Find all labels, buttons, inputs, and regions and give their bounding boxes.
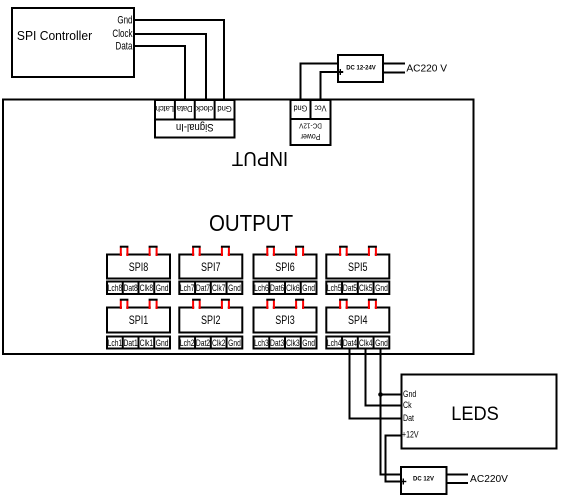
plus terminal PS2 — [400, 479, 406, 485]
svg-text:DC 12V: DC 12V — [413, 475, 435, 482]
wire PS1 minus to Power Gnd — [301, 64, 339, 101]
Power DC-12V label box — [291, 119, 331, 145]
svg-text:SPI3: SPI3 — [275, 314, 295, 328]
svg-text:Clk8: Clk8 — [140, 283, 154, 293]
wire controller Clock to Signal-In clock — [135, 34, 206, 100]
svg-text:Lch7: Lch7 — [180, 283, 195, 293]
svg-text:Lch6: Lch6 — [254, 283, 269, 293]
svg-text:Gnd: Gnd — [228, 283, 241, 293]
wire SPI4 Dat4 to LEDS Dat — [350, 349, 402, 419]
svg-text:Clk3: Clk3 — [286, 338, 300, 348]
svg-text:Signal-In: Signal-In — [176, 121, 214, 133]
svg-text:Gnd: Gnd — [375, 283, 388, 293]
Power connector pin block — [291, 100, 331, 119]
svg-text:DC 12-24V: DC 12-24V — [346, 64, 376, 71]
power supply DC 12V box — [401, 467, 447, 494]
svg-text:Clk6: Clk6 — [286, 283, 300, 293]
svg-text:Gnd: Gnd — [302, 283, 315, 293]
svg-text:Clk2: Clk2 — [212, 338, 226, 348]
svg-text:Lch3: Lch3 — [254, 338, 269, 348]
svg-text:Gnd: Gnd — [375, 338, 388, 348]
output connector SPI2 — [179, 300, 242, 349]
svg-text:AC220 V: AC220 V — [406, 63, 447, 74]
LEDS box — [402, 375, 557, 449]
wire PS1 AC line lower — [383, 72, 405, 74]
svg-text:Dat8: Dat8 — [124, 283, 139, 293]
wire branch Gnd to LEDS Gnd — [381, 394, 402, 396]
svg-text:Lch5: Lch5 — [327, 283, 342, 293]
plus terminal PS1 — [337, 69, 343, 75]
svg-text:SPI6: SPI6 — [275, 261, 295, 275]
svg-text:SPI Controller: SPI Controller — [17, 29, 92, 43]
output connector SPI3 — [254, 300, 317, 349]
svg-text:Latch: Latch — [156, 104, 174, 113]
svg-text:SPI5: SPI5 — [348, 261, 368, 275]
Signal-In label box — [155, 120, 235, 138]
svg-text:Dat1: Dat1 — [124, 338, 139, 348]
svg-text:SPI1: SPI1 — [129, 314, 149, 328]
svg-text:Power: Power — [300, 132, 320, 142]
svg-text:Data: Data — [176, 104, 192, 113]
output connector SPI7 — [179, 247, 242, 294]
svg-text:SPI4: SPI4 — [348, 314, 368, 328]
svg-text:Gnd: Gnd — [156, 283, 169, 293]
Signal-In connector pin block — [155, 100, 235, 120]
svg-text:LEDS: LEDS — [451, 402, 499, 423]
svg-text:Data: Data — [116, 40, 133, 53]
svg-text:SPI8: SPI8 — [129, 261, 149, 275]
svg-text:Dat7: Dat7 — [196, 283, 211, 293]
svg-text:DC-12V: DC-12V — [299, 121, 322, 129]
svg-text:Clk5: Clk5 — [359, 283, 373, 293]
svg-text:Lch8: Lch8 — [108, 283, 123, 293]
svg-text:Clk4: Clk4 — [359, 338, 373, 348]
svg-text:Lch2: Lch2 — [180, 338, 195, 348]
output connector SPI8 — [107, 247, 170, 294]
output connector SPI5 — [326, 247, 389, 294]
output connector SPI4 — [326, 300, 389, 349]
svg-text:Gnd: Gnd — [117, 14, 132, 27]
svg-text:Dat2: Dat2 — [196, 338, 211, 348]
junction dot on Gnd wire — [378, 392, 383, 397]
controller board main box — [3, 100, 474, 355]
wire SPI4 Clk4 to LEDS Ck — [366, 349, 402, 406]
svg-text:AC220V: AC220V — [470, 474, 508, 485]
svg-text:SPI2: SPI2 — [201, 314, 221, 328]
wire PS1 AC line upper — [383, 63, 405, 65]
svg-text:Ck: Ck — [403, 400, 412, 410]
SPI Controller box — [12, 8, 134, 77]
svg-text:Clock: Clock — [112, 28, 132, 41]
svg-text:Vcc: Vcc — [314, 104, 326, 114]
svg-text:SPI7: SPI7 — [201, 261, 221, 275]
svg-text:Clk1: Clk1 — [140, 338, 154, 348]
svg-text:Dat3: Dat3 — [270, 338, 285, 348]
wire PS2 AC line upper — [447, 474, 468, 476]
svg-text:Clk7: Clk7 — [212, 283, 226, 293]
wire PS2 AC line lower — [447, 482, 468, 484]
output connector SPI6 — [254, 247, 317, 294]
svg-text:+12V: +12V — [402, 430, 419, 440]
svg-text:Dat4: Dat4 — [343, 338, 358, 348]
svg-text:Gnd: Gnd — [294, 104, 308, 114]
svg-text:clock: clock — [195, 104, 213, 113]
svg-text:Dat5: Dat5 — [343, 283, 358, 293]
svg-text:Dat6: Dat6 — [270, 283, 285, 293]
svg-text:Lch4: Lch4 — [327, 338, 342, 348]
output connector SPI1 — [107, 300, 170, 349]
power supply DC 12-24V box — [338, 55, 383, 82]
svg-text:Gnd: Gnd — [302, 338, 315, 348]
wire controller Gnd to Signal-In Gnd — [135, 20, 224, 100]
wire PS1 plus to Power Vcc — [321, 72, 344, 100]
wire LEDS +12V to DC12V plus — [386, 436, 402, 482]
svg-text:INPUT: INPUT — [232, 147, 288, 170]
wire SPI4 Gnd down to DC12V supply — [381, 349, 401, 475]
wire controller Data to Signal-In Data — [135, 46, 185, 100]
svg-text:Gnd: Gnd — [403, 389, 416, 399]
svg-text:Gnd: Gnd — [217, 104, 232, 113]
svg-text:OUTPUT: OUTPUT — [209, 210, 293, 236]
svg-text:Dat: Dat — [403, 413, 415, 423]
svg-text:Gnd: Gnd — [156, 338, 169, 348]
svg-text:Lch1: Lch1 — [108, 338, 123, 348]
svg-text:Gnd: Gnd — [228, 338, 241, 348]
